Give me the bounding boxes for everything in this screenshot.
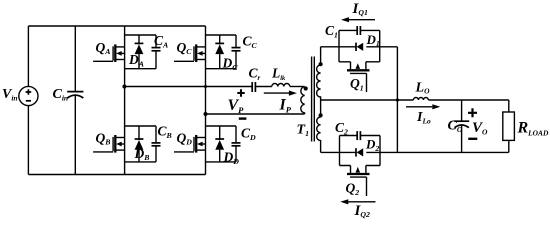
transistor Q2 (sync rectifier MOSFET)	[340, 166, 381, 197]
capacitor CC	[232, 35, 241, 69]
wire left bridge leg	[124, 26, 126, 175]
wire secondary bottom terminal / output return rail	[321, 151, 356, 153]
wire cell B top bar	[125, 125, 156, 127]
transistor QC (MOSFET)	[174, 44, 206, 62]
inductor Lo	[413, 98, 428, 101]
label Vp plus sign	[237, 89, 244, 96]
current arrow IQ1	[341, 17, 375, 22]
wire top rail	[28, 25, 205, 27]
capacitor Cin	[67, 26, 83, 175]
wire cell A bottom bar	[125, 68, 156, 70]
label Vp minus sign	[239, 117, 247, 119]
diode DA	[135, 35, 144, 69]
wire cell D bottom bar	[206, 161, 237, 163]
capacitor Cr	[252, 82, 255, 92]
transistor QA (MOSFET)	[93, 44, 125, 62]
transistor QD (MOSFET)	[174, 135, 206, 153]
diode D1	[339, 43, 397, 51]
transformer T1 core	[312, 57, 315, 142]
wire cell A top bar	[125, 34, 156, 36]
current arrow Ip	[264, 91, 297, 96]
wire cell D top bar	[206, 125, 237, 127]
inductor Llk	[272, 84, 290, 87]
transformer T1 primary polarity dot	[304, 86, 308, 90]
wire clamp output vertical (node P)	[396, 47, 398, 153]
wire top clamp box right side	[379, 30, 381, 61]
resistor Rload	[503, 100, 515, 152]
diode DB	[135, 126, 144, 162]
wire Llk to transformer primary	[290, 86, 305, 88]
diode DC	[215, 35, 224, 69]
voltage source Vin	[19, 26, 38, 175]
wire crossover of right leg over node A wire	[204, 85, 207, 88]
diode D2	[356, 148, 363, 156]
transformer T1 secondary top winding	[317, 47, 321, 117]
capacitor Co	[454, 100, 469, 152]
wire right bridge leg	[205, 26, 207, 175]
wire secondary top terminal to clamp box	[321, 46, 339, 48]
wire node A to Cr	[124, 86, 252, 88]
wire Cr to Llk	[256, 86, 272, 88]
current arrow ILo	[406, 104, 440, 109]
wire center tap to Lo	[321, 99, 414, 101]
junction node P	[396, 98, 399, 101]
label Vo plus sign	[468, 108, 477, 117]
transformer T1 secondary bottom polarity dot	[319, 113, 323, 117]
capacitor CD	[232, 126, 241, 162]
transformer T1 primary winding	[301, 87, 305, 114]
transistor Q1 (sync rectifier MOSFET)	[339, 62, 380, 92]
wire bottom rail	[28, 174, 205, 176]
wire bottom clamp box right side	[379, 136, 381, 166]
transformer T1 secondary bottom winding	[317, 117, 321, 152]
capacitor C1	[339, 26, 380, 35]
node B: right leg midpoint junction	[204, 112, 208, 116]
wire cell C top bar	[206, 34, 237, 36]
capacitor C2	[340, 131, 381, 140]
wire cell B bottom bar	[125, 161, 156, 163]
transformer T1 secondary top polarity dot	[319, 62, 323, 66]
current arrow IQ2	[340, 199, 375, 204]
transistor QB (MOSFET)	[93, 135, 125, 153]
node A: left leg midpoint junction	[122, 85, 126, 89]
wire bottom clamp box left side	[339, 136, 341, 166]
label Vo minus sign	[468, 138, 477, 140]
diode DD	[215, 126, 224, 162]
wire cell C bottom bar	[206, 68, 237, 70]
wire top clamp box left side	[338, 30, 340, 61]
wire output return rail right of D2	[366, 151, 509, 153]
wire Lo to output plus rail	[428, 99, 508, 101]
capacitor CA	[152, 35, 161, 69]
wire node B to primary bottom	[206, 113, 305, 115]
capacitor CB	[152, 126, 161, 162]
